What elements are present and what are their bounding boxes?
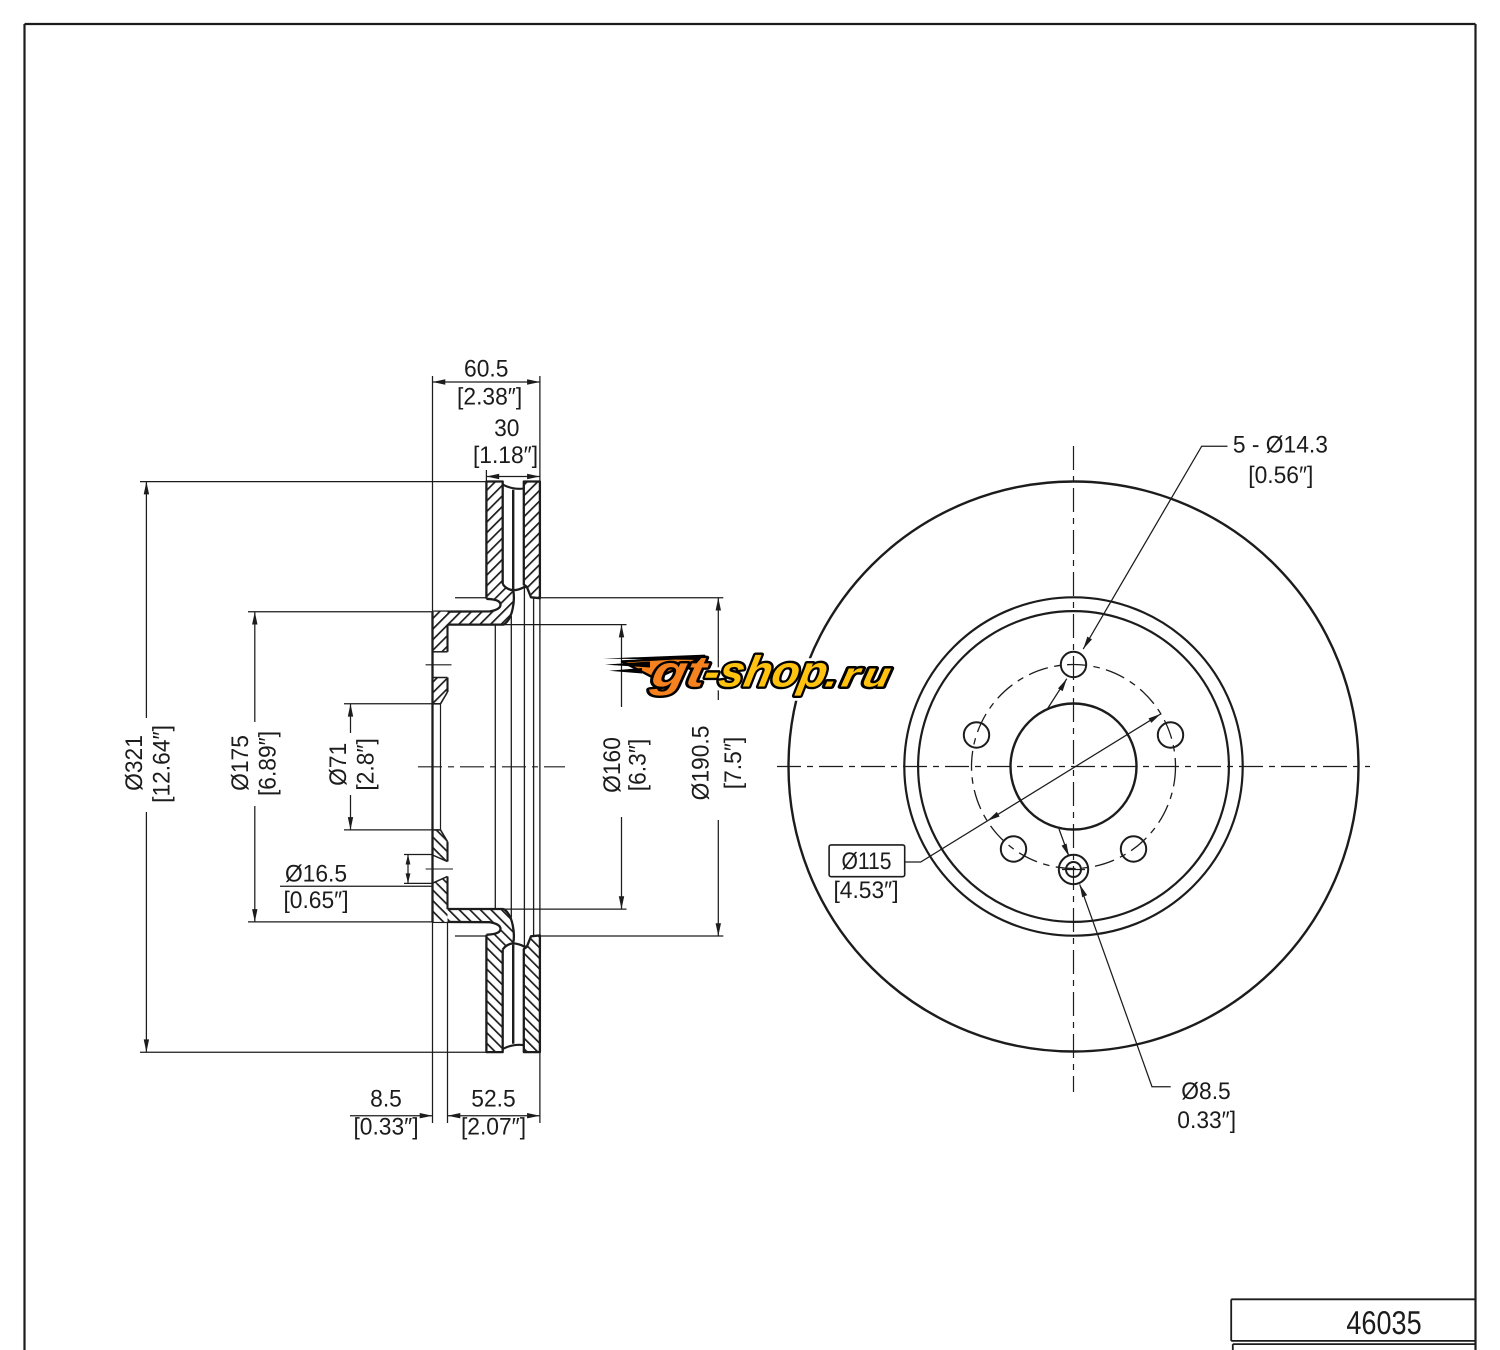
dim Ø190.5 [7.5"] friction surface inner diameter <box>455 597 486 599</box>
svg-text:Ø8.5: Ø8.5 <box>1181 1078 1230 1105</box>
leader 5-Ø14.3 stud holes <box>1083 446 1227 649</box>
title block <box>1231 1298 1475 1300</box>
svg-text:[12.64″]: [12.64″] <box>148 725 175 803</box>
svg-text:Ø190.5: Ø190.5 <box>688 726 715 801</box>
dim 52.5 [2.07"] hat depth <box>448 1115 540 1117</box>
set-screw hole centerline tick <box>426 868 453 870</box>
flange outer face <box>431 612 433 922</box>
dim Ø16.5 [0.65"] set-screw counterbore <box>404 854 433 856</box>
dim Ø160 [6.3"] hat inner diameter <box>448 624 627 626</box>
inner silhouette lines seen through bore <box>494 626 496 909</box>
svg-text:[4.53″]: [4.53″] <box>833 877 898 904</box>
svg-text:[2.07″]: [2.07″] <box>461 1114 526 1141</box>
friction surface inner circle Ø190.5 <box>904 597 1242 935</box>
svg-text:[6.89″]: [6.89″] <box>255 731 282 796</box>
svg-text:0.33″]: 0.33″] <box>1177 1107 1236 1134</box>
svg-text:Ø321: Ø321 <box>121 735 148 791</box>
dim 30 [1.18"] friction ring width <box>485 470 487 482</box>
svg-text:Ø175: Ø175 <box>227 735 254 791</box>
svg-text:60.5: 60.5 <box>464 356 508 383</box>
five stud holes Ø14.3 <box>1061 652 1086 677</box>
leader Ø8.5 set screw <box>1059 829 1069 856</box>
svg-text:.ru: .ru <box>822 657 898 695</box>
section axis centerline <box>418 766 565 768</box>
svg-text:Ø71: Ø71 <box>325 743 352 786</box>
svg-text:8.5: 8.5 <box>370 1086 402 1113</box>
center bore circle Ø71 <box>1011 704 1137 830</box>
stud hole (section) edges <box>433 651 448 653</box>
svg-text:Ø16.5: Ø16.5 <box>285 861 347 888</box>
hub flange wall hatch blocks <box>433 612 448 652</box>
svg-text:-shop: -shop <box>700 647 832 696</box>
svg-text:46035: 46035 <box>1346 1304 1421 1341</box>
svg-text:Ø160: Ø160 <box>599 737 626 793</box>
svg-text:52.5: 52.5 <box>471 1086 515 1113</box>
border frame <box>25 23 1476 25</box>
svg-text:5 - Ø14.3: 5 - Ø14.3 <box>1233 432 1328 459</box>
dim 60.5 [2.38"] overall width <box>432 376 434 612</box>
logo speed lines <box>603 655 705 660</box>
svg-text:[0.56″]: [0.56″] <box>1248 462 1313 489</box>
stud hole centerline tick <box>426 664 452 666</box>
dim Ø71 [2.8"] center bore <box>344 703 433 705</box>
hub bore chamfers + edges <box>441 692 448 704</box>
mirrored lower half <box>433 909 540 1052</box>
bolt circle Ø115 (centerline) <box>972 665 1176 869</box>
flange inner face segments <box>446 625 448 652</box>
hat flange circle Ø175 <box>918 611 1229 922</box>
svg-text:30: 30 <box>494 415 519 442</box>
svg-text:Ø115: Ø115 <box>841 848 891 875</box>
boxed dim Ø115 bolt circle <box>829 845 905 877</box>
svg-text:[0.33″]: [0.33″] <box>353 1114 418 1141</box>
section view: mirrored half (friction ring + hat junction) <box>433 482 540 625</box>
svg-text:[6.3″]: [6.3″] <box>625 739 652 791</box>
set-screw countersink edges <box>433 855 448 862</box>
dim Ø321 [12.64"] outer diameter <box>140 481 486 483</box>
svg-text:[2.8″]: [2.8″] <box>353 738 380 790</box>
set screw hole Ø16.5 / Ø8.5 <box>1059 855 1088 884</box>
dim Ø175 [6.89"] hat flange diameter <box>248 611 433 613</box>
svg-text:[7.5″]: [7.5″] <box>720 737 747 789</box>
logo wing swoosh <box>622 657 705 679</box>
svg-text:[2.38″]: [2.38″] <box>457 384 522 411</box>
svg-text:[0.65″]: [0.65″] <box>283 887 348 914</box>
dim 8.5 [0.33"] hat wall thickness <box>432 922 434 1123</box>
outer diameter circle Ø321 <box>789 482 1359 1052</box>
svg-text:[1.18″]: [1.18″] <box>473 442 538 469</box>
front view centerlines <box>1073 446 1075 1092</box>
